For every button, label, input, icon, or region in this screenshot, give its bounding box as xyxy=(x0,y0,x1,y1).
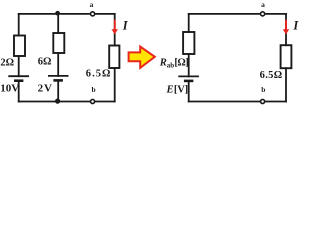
wire: right circuit right branch upper lead xyxy=(285,14,287,45)
svg-text:6Ω: 6Ω xyxy=(38,56,52,67)
wire: left circuit right branch upper lead xyxy=(114,14,116,46)
wire: left circuit bottom bus xyxy=(19,101,115,103)
resistor Rab box xyxy=(183,32,194,54)
resistor 6.5ohm box (left circuit) xyxy=(109,46,119,69)
current arrow I (left circuit) xyxy=(112,20,118,35)
svg-text:a: a xyxy=(90,0,94,9)
svg-text:a: a xyxy=(261,0,265,9)
wire: middle branch upper lead xyxy=(57,14,59,33)
node a terminal (right circuit) xyxy=(261,12,265,16)
wire: right circuit left branch upper lead xyxy=(188,14,190,32)
node b terminal (right circuit) xyxy=(261,99,265,103)
svg-text:6.5Ω: 6.5Ω xyxy=(86,68,111,79)
junction dot: bottom of middle branch xyxy=(55,99,60,104)
wire: left branch between resistor and battery xyxy=(18,56,20,76)
svg-text:Rab[Ω]: Rab[Ω] xyxy=(159,57,189,69)
wire: right circuit left branch lower lead xyxy=(188,82,190,101)
node a terminal (left circuit) xyxy=(91,12,95,16)
wire: left branch lower lead xyxy=(18,82,20,102)
wire: right circuit left branch between resistor and battery xyxy=(188,54,190,76)
battery 2V short plate xyxy=(53,79,63,82)
resistor 6.5ohm box (right circuit) xyxy=(281,45,292,68)
battery E short plate xyxy=(184,80,194,83)
wire: left branch upper lead xyxy=(18,14,20,36)
svg-text:b: b xyxy=(92,85,96,94)
battery 2V long plate xyxy=(48,75,69,77)
current arrow I (right circuit) xyxy=(283,20,289,35)
svg-text:b: b xyxy=(261,85,265,94)
junction dot: top of middle branch xyxy=(55,11,60,16)
node b terminal (left circuit) xyxy=(91,99,95,103)
svg-text:E[V]: E[V] xyxy=(166,84,189,95)
wire: right circuit bottom bus xyxy=(189,101,286,103)
wire: middle branch lower lead xyxy=(57,82,59,102)
battery 10V short plate xyxy=(14,79,23,82)
wire: left circuit top bus xyxy=(19,13,115,15)
wire: middle branch between resistor and battery xyxy=(57,53,59,76)
battery E long plate xyxy=(178,75,199,77)
resistor 6ohm box xyxy=(53,33,64,53)
resistor 2ohm box xyxy=(14,36,25,57)
svg-text:10V: 10V xyxy=(0,83,19,95)
battery 10V long plate xyxy=(8,75,29,77)
svg-text:6.5Ω: 6.5Ω xyxy=(260,70,283,81)
wire: left circuit right branch lower lead xyxy=(114,68,116,102)
svg-text:2V: 2V xyxy=(38,83,53,95)
svg-text:2Ω: 2Ω xyxy=(0,57,14,68)
wire: right circuit right branch lower lead xyxy=(285,68,287,101)
wire: right circuit top bus xyxy=(189,13,286,15)
big yellow transform arrow xyxy=(129,47,155,68)
